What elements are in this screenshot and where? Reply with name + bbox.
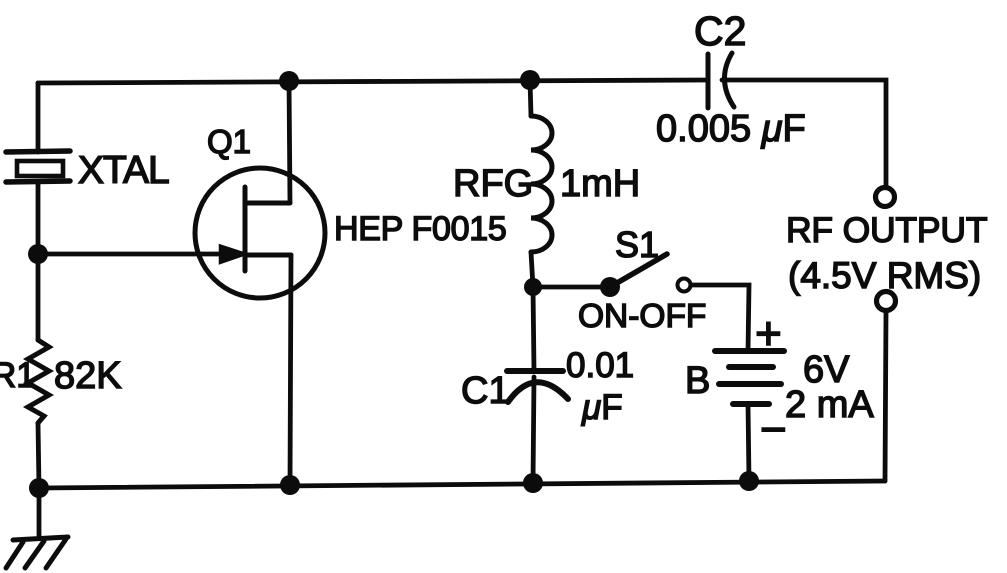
- switch S1 throw terminal: [678, 279, 691, 292]
- wire bottom rail: [39, 481, 885, 488]
- capacitor C2 plates: [708, 53, 734, 108]
- wire battery to bottom rail: [748, 404, 749, 481]
- wire inductor stem bottom to node B: [531, 252, 533, 287]
- wire top-right horizontal (C2 right plate to right corner): [722, 80, 886, 186]
- svg-text:S1: S1: [615, 224, 659, 265]
- svg-text:Q1: Q1: [207, 123, 251, 160]
- svg-text:μF: μF: [581, 388, 623, 427]
- svg-text:R1: R1: [0, 356, 36, 395]
- svg-text:2 mA: 2 mA: [785, 384, 874, 426]
- wire node B to switch pole: [533, 285, 610, 290]
- wire bottom-left node to ground: [37, 488, 42, 538]
- wire resistor bottom to bottom-left node: [38, 423, 39, 488]
- svg-text:82K: 82K: [54, 355, 122, 397]
- node bottom-left: [29, 478, 49, 498]
- switch S1 lever: [610, 254, 667, 287]
- svg-text:RFG: RFG: [453, 163, 533, 205]
- node A (gate / XTAL / R1): [28, 244, 48, 264]
- wire top-left horizontal (left rail to C2 left plate): [38, 80, 708, 83]
- svg-text:HEP F0015: HEP F0015: [334, 210, 506, 248]
- svg-text:ON-OFF: ON-OFF: [578, 298, 706, 335]
- svg-text:+: +: [755, 307, 782, 359]
- node bottom rail / battery: [739, 471, 759, 491]
- inductor RFG 1mH: [531, 116, 552, 252]
- svg-text:1mH: 1mH: [560, 163, 640, 205]
- crystal XTAL: [6, 151, 70, 182]
- node bottom rail / source: [280, 475, 300, 495]
- svg-text:0.01: 0.01: [566, 346, 634, 385]
- node B (inductor / switch / C1): [524, 278, 542, 296]
- node bottom rail / C1: [523, 473, 543, 493]
- capacitor C1 top stem: [533, 287, 534, 371]
- svg-text:RF OUTPUT: RF OUTPUT: [786, 210, 987, 250]
- terminal RF OUTPUT bottom: [877, 292, 896, 311]
- terminal RF OUTPUT top: [876, 188, 895, 207]
- wire node A to resistor top: [36, 254, 41, 340]
- wire XTAL to node A: [36, 182, 41, 254]
- node top rail / drain: [279, 71, 299, 91]
- wire switch to battery corner: [691, 285, 749, 351]
- wire drain (Q1 to top rail): [289, 81, 290, 203]
- battery B plates: [715, 351, 784, 404]
- svg-text:(4.5V RMS): (4.5V RMS): [788, 255, 981, 296]
- svg-text:0.005 μF: 0.005 μF: [656, 108, 806, 150]
- svg-text:−: −: [760, 403, 787, 455]
- svg-text:C1: C1: [461, 370, 510, 412]
- capacitor C1 plates: [507, 371, 568, 402]
- svg-text:XTAL: XTAL: [78, 149, 169, 192]
- node top rail / inductor: [520, 70, 540, 90]
- svg-text:C2: C2: [694, 8, 746, 54]
- wire RF OUTPUT bottom terminal to bottom rail: [885, 313, 886, 481]
- wire gate lead (node A to Q1 gate arrow): [38, 252, 228, 257]
- wire C1 to bottom rail: [533, 377, 534, 483]
- svg-text:B: B: [685, 360, 710, 402]
- node switch pole: [600, 277, 620, 297]
- wire inductor stem top: [530, 80, 531, 116]
- transistor Q1 (JFET): [195, 168, 325, 298]
- wire left vertical (top corner to XTAL): [36, 83, 41, 152]
- resistor R1 82K zigzag: [28, 340, 49, 423]
- ground: [6, 537, 68, 568]
- wire source (Q1 to bottom rail): [290, 255, 291, 485]
- gate arrowhead: [220, 246, 246, 264]
